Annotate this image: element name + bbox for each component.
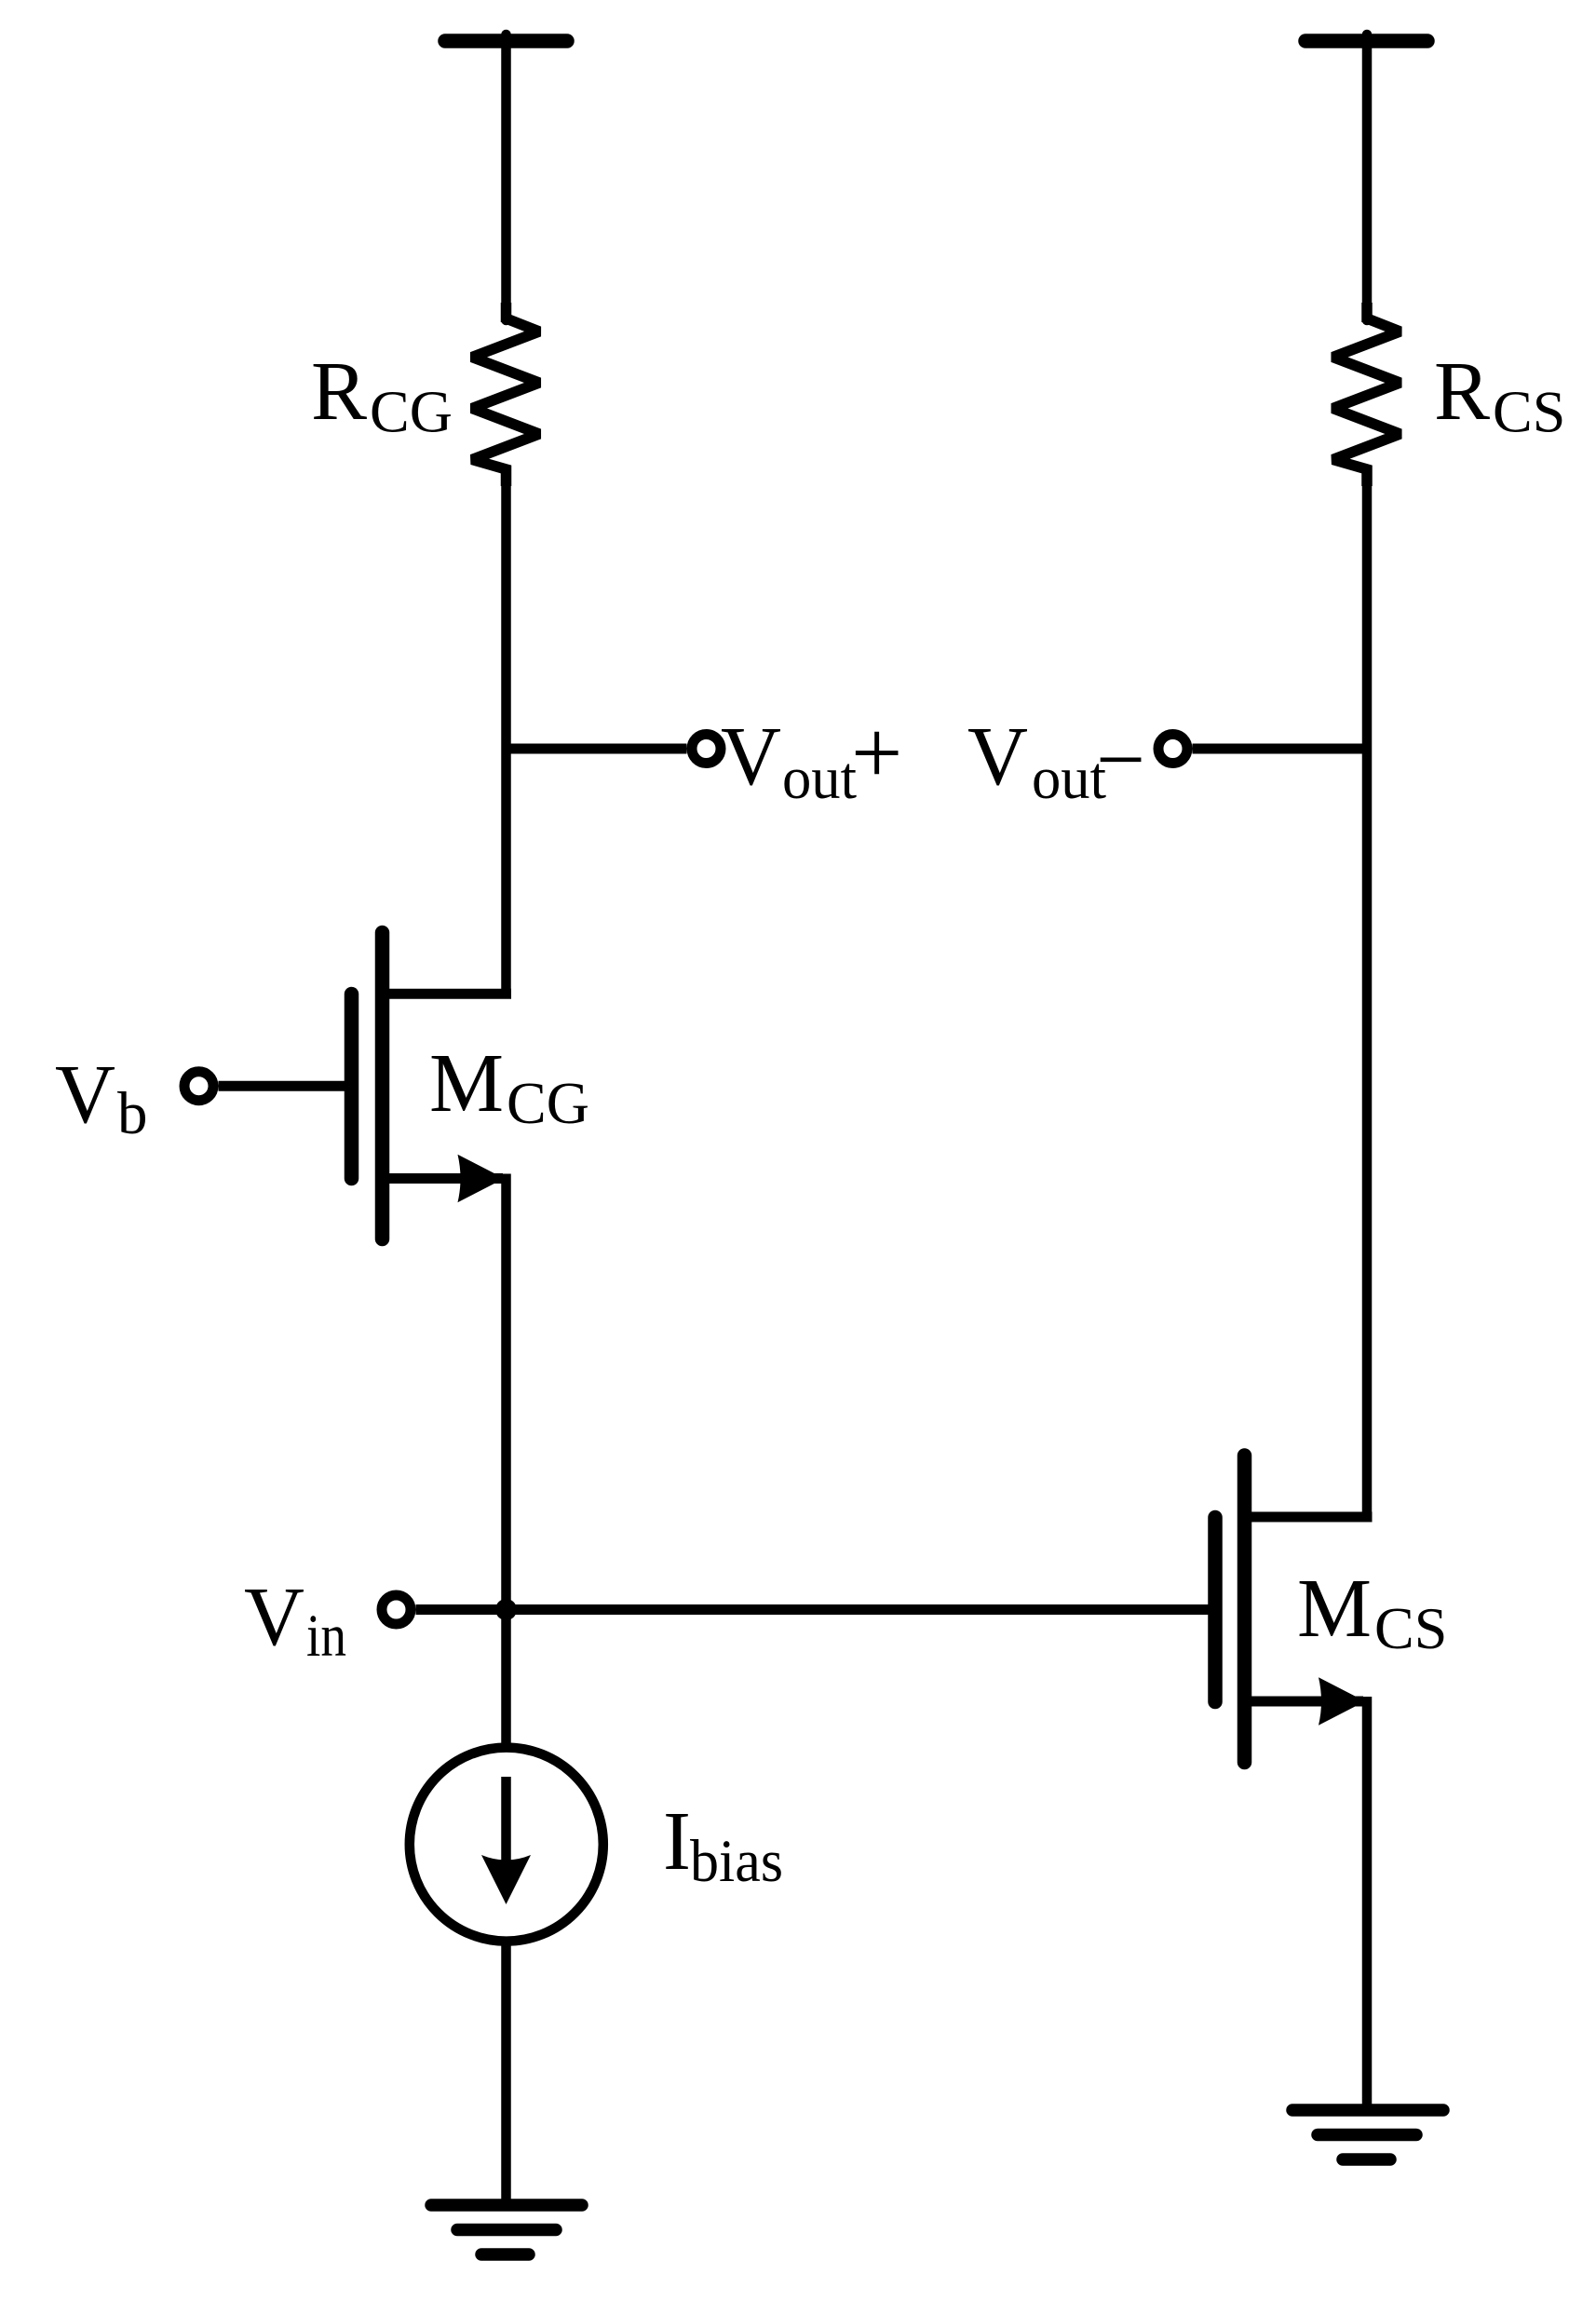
label Vb (55, 1049, 148, 1147)
terminal Vout+ (692, 735, 721, 764)
svg-text:in: in (306, 1603, 346, 1670)
wire Vin to MCS gate (507, 1604, 1209, 1615)
current source circle (410, 1748, 603, 1942)
wire Vin terminal to junction (416, 1604, 507, 1615)
current source arrow shaft (501, 1777, 511, 1862)
label Ibias (663, 1795, 783, 1895)
label RCS (1434, 345, 1565, 445)
svg-text:CS: CS (1493, 379, 1565, 445)
current source Ibias (410, 1748, 603, 1942)
terminal Vb (184, 1072, 213, 1101)
label MCG (429, 1037, 589, 1136)
MCS source arrow (1319, 1677, 1365, 1726)
svg-text:V: V (55, 1049, 115, 1141)
svg-text:R: R (1434, 345, 1490, 438)
node Vin junction dot (495, 1599, 517, 1620)
svg-text:out: out (1032, 745, 1106, 812)
wire rail to resistor RCG (501, 34, 511, 320)
svg-text:V: V (721, 711, 781, 803)
transistor MCG (352, 933, 512, 1239)
label Vout+ (721, 703, 902, 812)
MCG source arrow (458, 1155, 505, 1203)
label Vin (244, 1571, 346, 1670)
svg-text:R: R (311, 345, 367, 438)
resistor RCG (472, 303, 539, 486)
wire MCS source to ground (1362, 1697, 1373, 2110)
transistor MCS (1215, 1455, 1373, 1763)
ground right (1292, 2110, 1443, 2159)
wire Vb to gate (219, 1081, 345, 1091)
power rail VDD right (1305, 34, 1427, 48)
svg-text:CG: CG (507, 1070, 589, 1136)
wire resistor RCG to MCG drain (501, 469, 511, 998)
MCG source wire (386, 1173, 503, 1184)
svg-text:−: − (1096, 711, 1145, 808)
wire resistor RCS to MCS drain (1362, 469, 1373, 1522)
wire rail to resistor RCS (1362, 34, 1373, 320)
svg-text:+: + (851, 703, 902, 804)
svg-text:CS: CS (1374, 1595, 1447, 1661)
MCG drain wire (386, 989, 511, 999)
wire Vout+ tap (507, 744, 687, 754)
MCS source wire (1249, 1697, 1363, 1707)
wire current source to ground (501, 1942, 511, 2205)
label Vout- (967, 711, 1145, 812)
svg-text:M: M (1297, 1563, 1372, 1655)
terminal Vout- (1158, 735, 1187, 764)
MCS drain wire (1249, 1512, 1373, 1523)
wire Vout- tap (1193, 744, 1368, 754)
svg-text:I: I (663, 1795, 691, 1888)
svg-text:V: V (244, 1571, 304, 1663)
power rail VDD left (445, 34, 567, 48)
MCS gate bar (1208, 1518, 1223, 1702)
terminal Vin (382, 1595, 411, 1624)
ground left (431, 2205, 582, 2254)
svg-text:bias: bias (690, 1828, 783, 1895)
svg-text:b: b (117, 1080, 148, 1147)
wire MCG source to current source (501, 1174, 511, 1750)
resistor RCS (1333, 303, 1400, 486)
svg-text:CG: CG (370, 379, 453, 445)
MCG channel bar (375, 933, 390, 1239)
label RCG (311, 345, 453, 445)
svg-text:M: M (429, 1037, 504, 1130)
current source arrow head (481, 1855, 531, 1904)
label MCS (1297, 1563, 1447, 1661)
MCS channel bar (1238, 1455, 1252, 1763)
MCG gate bar (345, 995, 359, 1179)
svg-text:out: out (782, 745, 857, 812)
svg-text:V: V (967, 711, 1028, 803)
